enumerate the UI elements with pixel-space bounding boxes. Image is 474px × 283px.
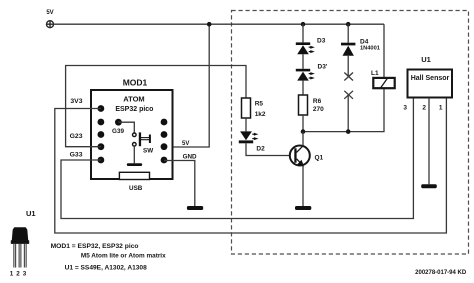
svg-text:U1 = SS49E, A1302, A1308: U1 = SS49E, A1302, A1308 — [65, 265, 148, 272]
dashed enclosure box (sensor unit boundary) — [232, 11, 469, 255]
diode D4 — [341, 43, 355, 56]
svg-text:U1: U1 — [26, 209, 36, 218]
pin G39 dot — [115, 119, 122, 126]
svg-text:L1: L1 — [371, 70, 379, 77]
svg-text:GND: GND — [183, 153, 197, 160]
wire: 3V3 net to hall sensor pin 1 — [55, 98, 447, 233]
option mark X2 — [344, 91, 353, 99]
wire: D3' to R6 — [302, 81, 304, 95]
svg-text:USB: USB — [129, 185, 143, 192]
LED D3' — [296, 69, 315, 81]
wire: D3 column from rail to D3 — [302, 24, 304, 42]
wire: X2 to collector node — [347, 95, 349, 132]
svg-text:ATOM: ATOM — [123, 94, 144, 103]
svg-text:5V: 5V — [182, 141, 189, 147]
wire: D3 to D3' — [302, 54, 304, 69]
svg-text:R6: R6 — [313, 98, 322, 105]
svg-text:U1: U1 — [421, 55, 431, 64]
svg-text:200278-017-94 KD: 200278-017-94 KD — [415, 270, 467, 276]
svg-text:G39: G39 — [112, 128, 124, 135]
USB connector — [119, 172, 149, 179]
svg-text:R5: R5 — [255, 101, 264, 108]
svg-text:M5 Atom lite or Atom matrix: M5 Atom lite or Atom matrix — [81, 253, 166, 260]
svg-text:Q1: Q1 — [315, 155, 324, 162]
wire: G23 net to R5 — [66, 66, 246, 147]
wire: D4 column from rail to D4 — [347, 24, 349, 43]
resistor R6 — [299, 95, 308, 115]
svg-text:1: 1 — [10, 271, 14, 278]
wire: hall pin 2 to ground — [428, 98, 430, 185]
ground bar (MOD1 GND) — [187, 206, 203, 210]
LED D2 — [239, 131, 259, 143]
svg-text:D4: D4 — [360, 38, 369, 45]
svg-text:MOD1 = ESP32, ESP32 pico: MOD1 = ESP32, ESP32 pico — [51, 243, 139, 250]
option mark X1 — [344, 73, 353, 81]
wire: rail end down to relay L1 top — [383, 24, 385, 78]
junction dot collector node / R6 — [301, 129, 306, 134]
svg-text:D3: D3 — [317, 38, 326, 45]
pushbutton SW — [133, 132, 151, 146]
wire: 5V branch down to MOD1 5V pin — [173, 24, 210, 147]
wire: R6 to collector node — [302, 115, 304, 132]
junction dot collector node / D4 column — [346, 129, 351, 134]
wire: R5 to D2 — [245, 118, 247, 131]
svg-text:5V: 5V — [46, 10, 53, 16]
svg-text:3: 3 — [23, 271, 27, 278]
svg-text:D2: D2 — [256, 146, 265, 153]
ground bar (Q1 emitter) — [295, 206, 311, 210]
MOD1 right pin dots — [161, 119, 168, 164]
svg-text:1k2: 1k2 — [255, 111, 266, 118]
ground bar (hall pin 2) — [421, 184, 437, 188]
wire: D2 to Q1 base — [246, 143, 290, 155]
wire: D4 to option mark X1 — [347, 56, 349, 77]
svg-text:G33: G33 — [70, 152, 83, 159]
transistor package U1 (TO-92) — [11, 227, 29, 267]
junction dot 5V rail / MOD1 branch — [207, 22, 212, 27]
5V supply terminal — [47, 21, 54, 28]
MOD1 module box — [91, 90, 173, 179]
wire: switch to module ground — [133, 146, 135, 163]
wire: Q1 emitter to ground — [302, 166, 304, 206]
wire: relay L1 bottom to collector node — [303, 88, 384, 131]
svg-text:MOD1: MOD1 — [123, 78, 148, 88]
LED D3 — [296, 42, 315, 54]
ground bar (module internal) — [127, 163, 142, 166]
junction dot 5V rail / D3 column — [301, 22, 306, 27]
resistor R5 — [242, 98, 251, 118]
wire: Q1 collector to node — [302, 132, 304, 146]
hall sensor U1 box — [408, 70, 453, 98]
svg-text:ESP32 pico: ESP32 pico — [115, 106, 153, 113]
svg-text:G23: G23 — [70, 133, 83, 140]
wire: GND pin to ground — [164, 161, 195, 207]
svg-text:1: 1 — [439, 105, 443, 112]
wire: G39 to switch SW — [118, 122, 134, 133]
svg-text:2: 2 — [16, 271, 20, 278]
junction dot 5V rail / D4 column — [346, 22, 351, 27]
wire: G33 net to hall sensor pin 3 — [61, 98, 413, 219]
svg-text:3: 3 — [403, 105, 407, 112]
svg-text:Hall Sensor: Hall Sensor — [411, 75, 450, 82]
wire: 5V rail from terminal to relay branch — [54, 23, 385, 25]
svg-text:2: 2 — [422, 105, 426, 112]
relay coil L1 — [373, 78, 394, 88]
svg-text:270: 270 — [313, 106, 324, 113]
MOD1 left pin dots — [98, 105, 105, 163]
svg-text:1N4001: 1N4001 — [360, 46, 380, 52]
svg-text:D3': D3' — [318, 64, 328, 71]
transistor Q1 (NPN) — [290, 146, 310, 167]
svg-text:3V3: 3V3 — [70, 98, 82, 105]
svg-text:SW: SW — [143, 147, 153, 154]
